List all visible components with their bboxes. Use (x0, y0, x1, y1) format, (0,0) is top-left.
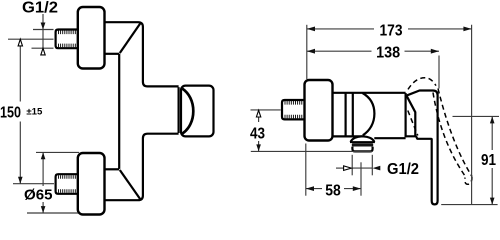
svg-text:G1/2: G1/2 (387, 161, 419, 178)
svg-text:±15: ±15 (26, 107, 43, 118)
svg-text:138: 138 (376, 45, 400, 62)
svg-text:Ø65: Ø65 (24, 187, 53, 204)
svg-text:150: 150 (0, 105, 21, 122)
svg-text:43: 43 (250, 125, 265, 142)
svg-text:G1/2: G1/2 (22, 0, 58, 17)
svg-text:58: 58 (325, 182, 341, 199)
svg-text:173: 173 (380, 22, 403, 39)
svg-text:91: 91 (481, 152, 496, 169)
